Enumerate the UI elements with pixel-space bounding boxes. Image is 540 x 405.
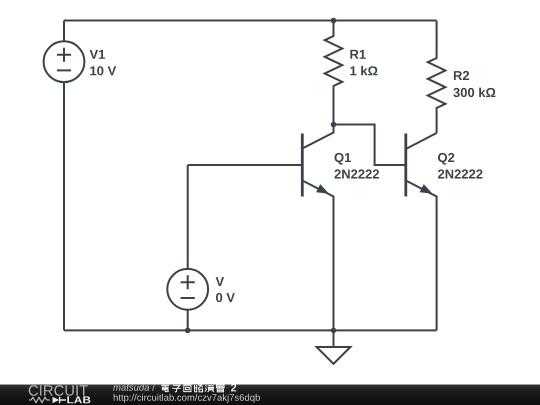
transistor Q1 [302,125,333,331]
wire top rail [64,20,437,22]
credit matsuda [113,384,149,391]
node dot top R1 tap [331,18,337,24]
kanji 演 [205,385,214,392]
label Q2 part 2N2222 [438,169,483,178]
voltage source V1 [44,41,85,82]
label V [216,277,225,286]
label 1 kOhm [350,66,377,75]
credit kanji title 電子回路演習 (drawn) [161,385,224,392]
label R1 [350,50,365,59]
label 300 kOhm [453,88,495,98]
wire node to Q2 base [334,125,406,166]
resistor R2 [428,21,446,134]
credit number 2 [231,384,236,392]
label V1 [90,50,105,59]
wire Q1 base from V [188,164,303,166]
kanji 子 [172,385,180,391]
logo diode [53,397,67,403]
node dot V junction [185,328,191,334]
label 10 V [90,66,116,75]
node dot ground junction [331,328,337,334]
label 0 V [216,293,235,302]
wire left V1 top lead [63,21,65,42]
footer bar [0,385,540,405]
logo resistor squiggle [29,397,50,402]
wire V top lead [187,165,189,269]
kanji 電 [161,385,169,392]
wire V bottom lead [187,310,189,331]
kanji 回 [184,385,191,391]
wire bottom rail [64,329,437,331]
logo CIRCUIT [29,385,88,396]
label Q1 [335,153,352,165]
node dot Q1 collector [331,122,337,128]
credit url [114,394,260,403]
label Q2 [438,153,454,165]
voltage source V [167,269,208,310]
transistor Q2 [406,133,437,330]
logo LAB [67,396,90,403]
kanji 習 [217,385,225,392]
resistor R1 [325,21,343,125]
label R2 [454,71,469,80]
wire left V1 bottom lead [63,82,65,330]
ground [317,330,351,363]
credit slash [152,384,155,391]
label Q1 part 2N2222 [335,169,380,178]
kanji 路 [195,385,203,392]
